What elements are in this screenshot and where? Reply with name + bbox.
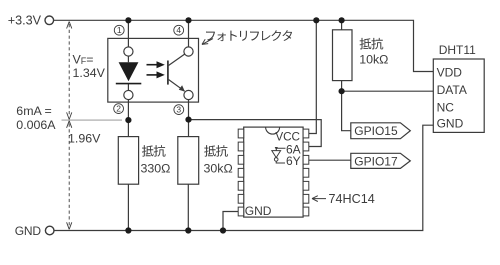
svg-text:4: 4 — [176, 25, 181, 35]
wire DATA node down to GPIO15 — [342, 91, 351, 131]
svg-text:74HC14: 74HC14 — [329, 192, 375, 206]
wire LED cathode — [127, 84, 129, 91]
svg-text:2: 2 — [116, 104, 121, 114]
svg-text:30kΩ: 30kΩ — [204, 161, 233, 175]
svg-text:3: 3 — [176, 105, 181, 115]
wire 74HC14 6Y to GPIO17 — [309, 159, 351, 161]
pin label 2 — [114, 104, 124, 114]
svg-text:0.006A: 0.006A — [16, 118, 56, 132]
wire pin2 to resistor 330 top — [127, 100, 129, 137]
node DATA junction — [339, 88, 345, 94]
light arrow 1 — [147, 61, 165, 68]
svg-text:6Y: 6Y — [286, 154, 301, 168]
label 74HC14 with arrow — [312, 192, 375, 206]
pin label 4 — [174, 25, 184, 35]
svg-text:10kΩ: 10kΩ — [359, 53, 388, 67]
wire pin3 emitter to resistor 30k top — [188, 100, 190, 137]
GPIO17 tag — [351, 153, 411, 168]
light arrow 2 — [147, 71, 165, 78]
node 2 (1.96V) — [125, 117, 131, 123]
label arrow to photoreflector — [202, 39, 213, 45]
dimension line 1.96V — [67, 121, 72, 230]
svg-text:DHT11: DHT11 — [439, 43, 476, 57]
wire 10k resistor top to rail — [341, 20, 343, 30]
pin circle 1 — [124, 47, 133, 56]
resistor 330 label — [141, 145, 171, 175]
node pin4 on rail — [185, 17, 191, 23]
svg-text:1: 1 — [117, 25, 122, 35]
resistor 30k body — [178, 137, 199, 185]
LED D1 triangle — [119, 62, 139, 81]
IC 74HC14 body — [244, 127, 303, 217]
IC left pins — [238, 129, 244, 216]
GPIO15 tag — [351, 123, 411, 139]
IC notch — [266, 127, 280, 134]
svg-text:GPIO15: GPIO15 — [354, 124, 398, 138]
svg-text:1.34V: 1.34V — [73, 66, 106, 80]
svg-text:GPIO17: GPIO17 — [354, 154, 398, 168]
label photoreflector (katakana) — [206, 30, 292, 41]
resistor 30k label — [204, 145, 233, 175]
IC right pins — [303, 129, 309, 216]
DHT11 body — [433, 59, 484, 132]
phototransistor Q1 — [168, 54, 185, 92]
wire 10k resistor bottom to DATA node — [341, 81, 343, 92]
wire pin1 anode riser — [127, 20, 129, 47]
node 330 on GND rail — [125, 227, 131, 233]
wire resistor 30k bottom to GND rail — [187, 184, 189, 230]
svg-text:VF=: VF= — [73, 52, 94, 66]
node 30k on GND rail — [185, 227, 191, 233]
wire DATA node to DHT11 DATA — [342, 90, 434, 92]
wire node3 to 74HC14 input 6A — [189, 120, 322, 147]
pin circle 3 — [184, 90, 193, 99]
resistor 10k label — [359, 38, 388, 67]
svg-text:330Ω: 330Ω — [141, 161, 171, 175]
terminal +3.3V — [45, 16, 54, 25]
resistor 330 body — [118, 137, 138, 185]
svg-text:1.96V: 1.96V — [68, 132, 101, 146]
wire resistor 330 bottom to GND rail — [127, 184, 129, 230]
measurement tick at node 2 — [62, 119, 123, 121]
node pin1 on rail — [125, 17, 131, 23]
photoreflector body — [108, 38, 199, 102]
resistor 10k body — [333, 30, 353, 81]
pin circle 2 — [124, 90, 133, 99]
svg-text:GND: GND — [245, 204, 272, 218]
svg-text:VDD: VDD — [437, 65, 463, 79]
LED cathode bar — [116, 83, 142, 85]
wire pin4 collector riser — [188, 20, 190, 47]
node 10k riser on rail — [339, 17, 345, 23]
terminal GND — [45, 226, 54, 235]
wire 74HC14 GND to rail — [223, 212, 238, 231]
wire LED anode to triangle — [127, 56, 129, 62]
inverter gate symbol — [272, 147, 286, 163]
wire 74HC14 VCC to rail — [309, 20, 317, 133]
pin label 3 — [174, 105, 184, 115]
svg-text:GND: GND — [15, 224, 42, 238]
dimension line VF — [67, 22, 72, 120]
svg-text:DATA: DATA — [437, 83, 467, 97]
svg-text:6mA =: 6mA = — [16, 104, 51, 118]
svg-text:NC: NC — [437, 101, 455, 115]
wire GND bottom rail to DHT11 GND — [54, 125, 433, 230]
svg-text:GND: GND — [437, 117, 464, 131]
node VCC riser on rail — [313, 17, 319, 23]
node 74HC14 GND on rail — [220, 227, 226, 233]
node 3 — [185, 117, 191, 123]
pin circle 4 — [184, 47, 193, 56]
wire +3.3V top rail to DHT11 VDD — [54, 20, 434, 71]
pin label 1 — [114, 25, 124, 35]
svg-text:+3.3V: +3.3V — [8, 14, 42, 28]
